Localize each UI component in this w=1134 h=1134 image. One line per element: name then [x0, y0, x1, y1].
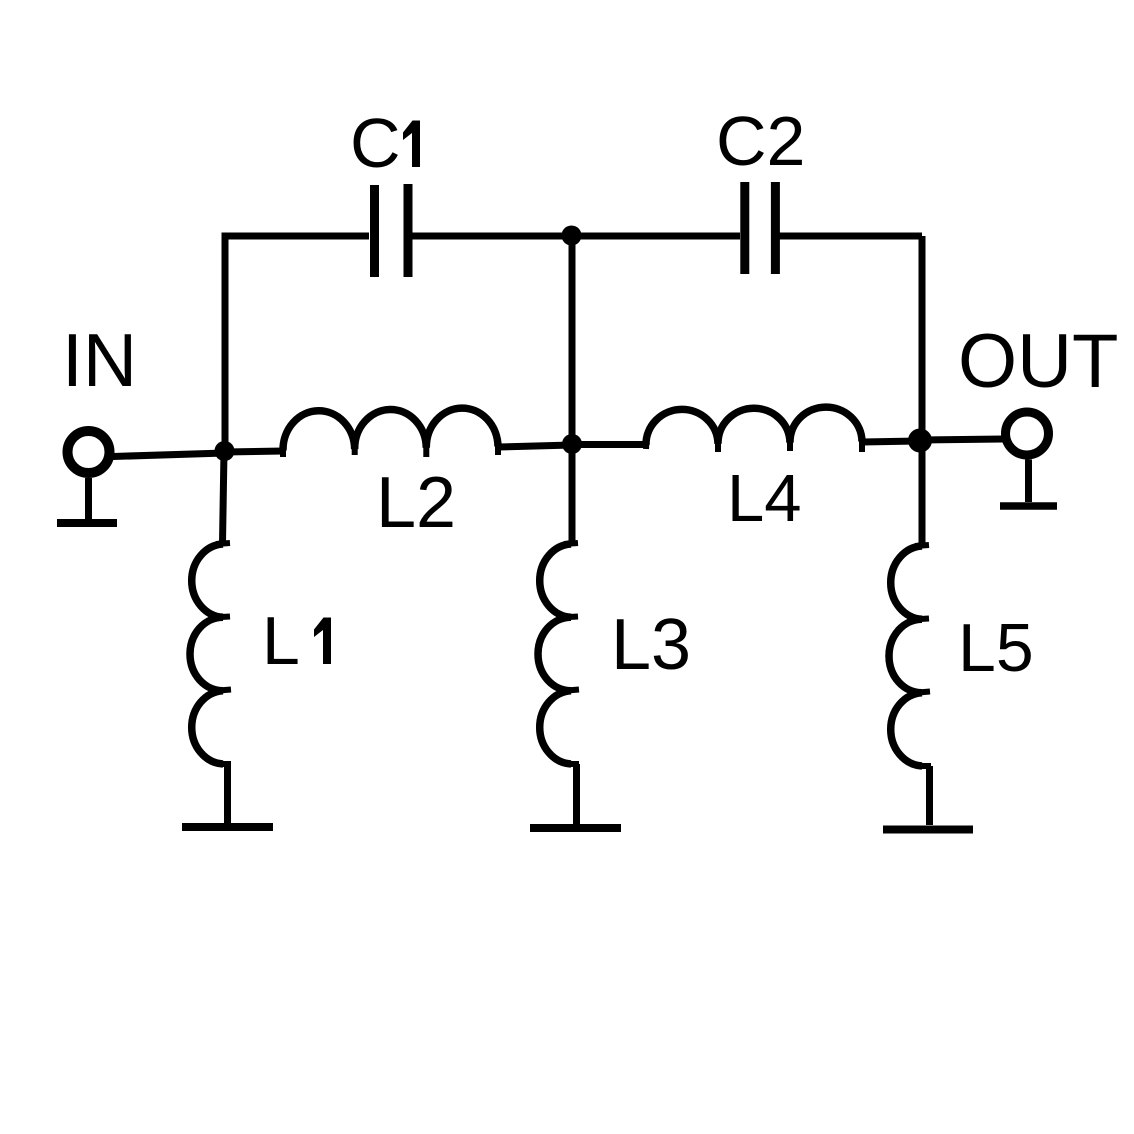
svg-text:L2: L2	[376, 463, 456, 543]
label L4	[727, 461, 802, 536]
wire top rail middle segment	[412, 233, 740, 240]
svg-text:IN: IN	[62, 318, 137, 402]
wire L4 to node3	[862, 441, 920, 442]
inductor L1	[190, 543, 231, 764]
capacitor C1	[375, 184, 409, 277]
label OUT	[958, 319, 1118, 404]
label L1	[262, 603, 331, 679]
inductor L5	[889, 545, 931, 766]
wire top rail right segment	[779, 233, 922, 240]
label IN	[62, 318, 137, 402]
svg-text:OUT: OUT	[958, 319, 1118, 404]
wire IN to node1	[113, 453, 225, 457]
node 1 (IN / C1 / L1 / L2 junction)	[215, 441, 235, 461]
inductor L4	[646, 407, 862, 452]
label C2	[716, 102, 805, 180]
wire node3 to L5	[919, 440, 926, 545]
wire node1 to L1	[223, 451, 225, 543]
wire L1 to ground	[224, 764, 231, 823]
ground (IN terminal)	[57, 478, 117, 523]
node top (C1/C2/L3 junction)	[562, 226, 582, 246]
wire top-left vertical (node1 to top rail)	[222, 239, 229, 451]
wire mid vertical (top node to node2)	[569, 239, 576, 444]
wire L2 to node2	[498, 445, 572, 447]
ground (L3)	[530, 824, 621, 832]
inductor L3	[538, 543, 579, 764]
svg-text:C2: C2	[716, 102, 805, 180]
ground (OUT terminal)	[1000, 460, 1057, 507]
inductor L2	[283, 408, 498, 457]
svg-text:L: L	[262, 603, 300, 679]
wire node2 to L3	[569, 444, 576, 543]
svg-text:L4: L4	[727, 461, 802, 536]
wire top rail left segment	[222, 233, 370, 240]
node 2 (L2 / L3 / L4 junction)	[562, 434, 582, 454]
wire node2 to L4	[572, 441, 647, 448]
label L5	[958, 610, 1034, 686]
wire node1 to L2	[225, 451, 284, 452]
terminal IN	[68, 431, 110, 473]
node 3 (C2 / L4 / L5 / OUT junction)	[908, 429, 932, 453]
wire top-right vertical (top rail to node3)	[919, 236, 926, 440]
label L2	[376, 463, 456, 543]
label C1	[350, 104, 420, 182]
wire node3 to OUT	[920, 439, 1003, 440]
svg-text:L5: L5	[958, 610, 1034, 686]
svg-text:C: C	[350, 104, 401, 182]
wire L3 to ground	[573, 764, 580, 824]
ground (L1)	[182, 823, 273, 831]
svg-text:L3: L3	[611, 605, 691, 685]
capacitor C2	[745, 182, 776, 274]
wire L5 to ground	[926, 766, 933, 825]
terminal OUT	[1006, 412, 1049, 455]
ground (L5)	[883, 826, 973, 834]
label L3	[611, 605, 691, 685]
